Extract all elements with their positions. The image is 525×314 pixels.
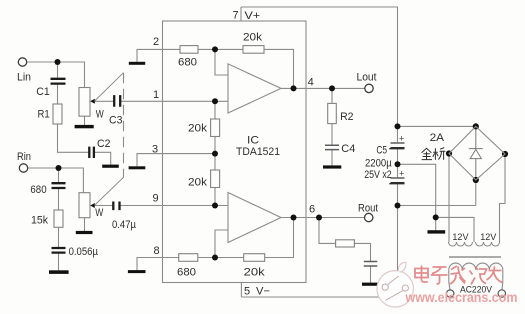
capacitor 680p (52, 183, 66, 188)
node out1 feedback (291, 85, 297, 91)
svg-text:25V x2: 25V x2 (364, 169, 392, 181)
pin 7 tick (240, 7, 242, 21)
svg-text:TDA1521: TDA1521 (236, 146, 280, 158)
capacitor C5 lower thick plate (391, 182, 405, 185)
wire pin8 row inside IC (198, 218, 294, 258)
transformer T1 secondary winding right (476, 242, 500, 246)
node V- bridge (395, 203, 401, 209)
svg-text:20k: 20k (188, 123, 208, 135)
watermark logo circle (377, 262, 413, 307)
svg-text:C1: C1 (36, 86, 49, 98)
node Lin junction (55, 59, 61, 65)
node pin3 net (212, 151, 218, 157)
svg-text:IC: IC (247, 135, 259, 147)
resistor 20k lower feedback (244, 254, 265, 262)
node Lout R2 (329, 85, 335, 91)
transformer T1 primary winding (449, 263, 503, 270)
wire zobel branch (319, 218, 371, 283)
wire 15k to 0.056 (58, 227, 60, 247)
capacitor C5 upper thick plate (391, 147, 405, 150)
transformer core line (449, 256, 501, 258)
capacitor C4 (325, 145, 339, 149)
wire V- to bridge minus (398, 180, 476, 206)
svg-text:5: 5 (244, 286, 250, 298)
svg-text:20k: 20k (188, 177, 208, 189)
svg-text:680: 680 (30, 184, 46, 196)
wire Rin junction down (58, 168, 60, 183)
ground C4 (323, 165, 341, 168)
wire bridge AC right (500, 154, 506, 242)
wire V- rail down (241, 184, 397, 297)
svg-text:C4: C4 (341, 143, 355, 155)
terminal Rout (365, 213, 373, 221)
svg-text:C5: C5 (376, 144, 387, 156)
svg-text:Lout: Lout (357, 72, 377, 84)
wire output pin4 to Lout (281, 87, 365, 89)
node ground mid (395, 161, 401, 167)
resistor 680 lower (179, 254, 198, 262)
resistor 680 upper (180, 46, 198, 54)
wire pin2 stub to ground (137, 49, 163, 61)
wire C2 to ground corner (95, 152, 111, 164)
ground pin2 (129, 62, 145, 65)
potentiometer P1 (79, 88, 90, 117)
node pin2 net (212, 46, 218, 52)
wire pin2 row inside IC (163, 49, 294, 88)
ground pot P2 (76, 231, 93, 234)
svg-text:Lin: Lin (17, 72, 31, 84)
ground pin8 (128, 270, 146, 273)
svg-text:Rout: Rout (358, 202, 378, 214)
ground C2 (102, 165, 119, 168)
wiper arrow P1 (90, 99, 95, 104)
ground zobel (362, 283, 379, 286)
primary plug circle right (498, 290, 505, 297)
node pin9 net (212, 203, 218, 209)
svg-text:R1: R1 (38, 109, 50, 121)
primary terminal right (501, 270, 504, 290)
svg-text:680: 680 (178, 57, 197, 69)
svg-text:20k: 20k (243, 32, 263, 44)
wire between C5 caps (397, 149, 399, 178)
wiper arrow P2 (90, 203, 95, 208)
svg-text:Rin: Rin (17, 151, 31, 163)
gang dashed line (123, 73, 125, 178)
resistor R2 (328, 103, 337, 123)
svg-text:C2: C2 (97, 138, 110, 150)
primary terminal left (449, 270, 450, 290)
svg-text:V−: V− (256, 286, 270, 298)
svg-text:6: 6 (309, 204, 315, 216)
ground pot P1 (75, 125, 94, 128)
wire wiper2 to 0.47 (95, 205, 113, 207)
svg-text:0.47µ: 0.47µ (112, 219, 137, 231)
svg-text:+: + (399, 168, 404, 178)
resistor 15k (54, 210, 63, 227)
svg-text:+: + (399, 133, 404, 143)
capacitor C3 (114, 95, 120, 107)
wire R1 to C2 (58, 124, 89, 152)
svg-text:W: W (95, 207, 103, 219)
svg-text:2: 2 (153, 36, 159, 48)
wire bridge AC left (448, 154, 450, 243)
capacitor C2 (89, 147, 94, 158)
wire junction to C1 (57, 62, 59, 79)
resistor 20k chain upper (211, 119, 220, 137)
primary plug circle left (447, 290, 454, 297)
svg-text:C3: C3 (109, 115, 122, 127)
svg-text:4: 4 (308, 77, 314, 89)
svg-text:V+: V+ (244, 10, 260, 22)
svg-text:R2: R2 (340, 111, 353, 123)
svg-text:2A: 2A (430, 132, 445, 144)
node V+ bridge (395, 123, 401, 129)
capacitor 0.056u (52, 248, 66, 253)
ground 0.056u (49, 270, 69, 274)
capacitor C5 upper plates (391, 142, 405, 144)
capacitor zobel (364, 262, 378, 267)
wire pin8 stub to ground (137, 258, 179, 271)
wire pot P1 bottom to ground (84, 116, 86, 125)
wire pin3 row (137, 154, 215, 167)
wire output pin6 to Rout (281, 217, 365, 219)
wire inverting input U1a (215, 49, 228, 75)
svg-text:9: 9 (153, 192, 159, 204)
node pin1 net (212, 98, 218, 104)
wire ground center tap (398, 164, 475, 242)
op-amp U1a (228, 64, 281, 113)
wire 680p to 15k (58, 189, 60, 210)
node bridge right (502, 151, 508, 157)
resistor 20k chain lower (211, 170, 220, 188)
ground pin3 (129, 166, 146, 169)
node Rin junction (56, 165, 62, 171)
svg-text:7: 7 (233, 10, 239, 22)
pin 5 tick (240, 283, 242, 298)
node Rout zobel (316, 215, 322, 221)
wire 0.056 to ground (58, 253, 60, 270)
svg-text:12V: 12V (452, 232, 469, 243)
svg-text:12V: 12V (480, 232, 497, 243)
op-amp U1b (228, 193, 281, 243)
transformer T1 secondary winding left (449, 242, 473, 246)
node bridge bottom (473, 177, 479, 183)
wire V+ top line (241, 7, 398, 142)
IC U1 box TDA1521 (163, 21, 307, 283)
resistor zobel lower (336, 240, 355, 247)
wire C3 to pin 1 (121, 100, 228, 102)
terminal Lout (365, 84, 373, 92)
wire R2 branch (331, 88, 333, 165)
svg-text:2200µ: 2200µ (365, 158, 392, 170)
resistor R1 (53, 104, 62, 124)
svg-text:8: 8 (154, 245, 160, 257)
wire 0.47 to pin 9 (120, 205, 228, 207)
node bridge top (473, 123, 479, 129)
svg-text:15k: 15k (31, 215, 48, 227)
wire 20k chain (214, 101, 216, 205)
node center tap (433, 214, 439, 220)
diode inside bridge (469, 129, 483, 177)
svg-text:20k: 20k (244, 267, 266, 279)
wire V+ to bridge plus (398, 125, 476, 127)
potentiometer P2 (79, 193, 90, 218)
svg-text:680: 680 (177, 267, 196, 279)
bridge rectifier diamond (449, 126, 505, 180)
svg-text:1: 1 (153, 89, 159, 101)
wire Rin node (28, 168, 83, 193)
terminal Lin (18, 58, 26, 66)
svg-text:0.056µ: 0.056µ (69, 246, 99, 258)
wire inverting input U1b (215, 230, 228, 258)
capacitor 0.47u (113, 202, 119, 211)
wire pot P2 bottom to ground (84, 218, 86, 231)
wire C1 to R1 (57, 84, 59, 104)
wire wiper to C3 (95, 100, 113, 102)
svg-text:W: W (96, 109, 104, 121)
terminal Rin (19, 164, 27, 172)
label quanqiao (full bridge) chinese chars drawn as paths (422, 148, 446, 160)
svg-text:3: 3 (152, 144, 158, 156)
resistor 20k upper feedback (243, 46, 264, 54)
capacitor C1 (51, 79, 66, 84)
wiper diagonal P2 (95, 177, 124, 205)
ground PSU center (428, 230, 446, 233)
wiper diagonal P1 (95, 73, 124, 101)
svg-text:www.elecrans.com: www.elecrans.com (405, 289, 518, 305)
node bridge left (446, 150, 452, 156)
node pin8 net (212, 255, 218, 261)
wire Lin node horizontal (27, 62, 85, 88)
watermark text dianzifashaoyou (415, 266, 502, 285)
node out2 feedback (291, 215, 297, 221)
capacitor C5 lower plates (391, 177, 405, 179)
